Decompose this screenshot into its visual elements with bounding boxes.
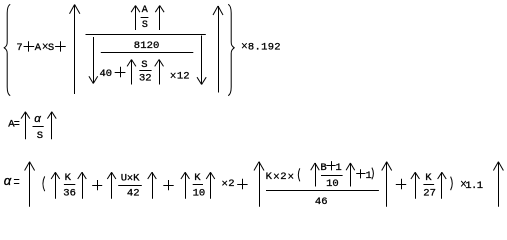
svg-text:10: 10 [193,188,206,200]
big plus 5 [163,185,173,187]
svg-text:12: 12 [177,70,190,82]
svg-text:S: S [141,59,147,71]
svg-text:1: 1 [366,170,372,182]
UxK/42 bar [118,185,142,187]
svg-text:2: 2 [228,178,234,190]
big plus 1 [24,46,35,48]
text x1.1 [461,181,466,187]
K/27 bar [423,184,434,186]
svg-text:K: K [425,172,432,184]
svg-text:46: 46 [315,196,328,208]
svg-text:32: 32 [139,72,152,84]
big plus 3 [115,72,126,74]
svg-text:A: A [35,42,42,54]
line3 big fraction right tall arrow [386,162,388,207]
line3 big fraction left tall arrow [259,162,261,207]
svg-text:S: S [48,42,54,54]
inner open paren [298,168,299,181]
K/36 right arrow [82,172,84,199]
svg-text:1: 1 [335,162,341,174]
K/10 right arrow [210,172,212,199]
svg-text:B: B [320,162,326,174]
up arrow S/32 right [159,60,161,85]
line3 tall arrow end [498,162,500,207]
inner close paren [372,168,374,180]
alpha over S bar [33,126,44,128]
plus 8 [356,173,365,175]
svg-text:8120: 8120 [134,40,160,52]
main fraction bar top formula [86,34,206,36]
K/27 left arrow [415,172,417,199]
svg-text:K: K [194,172,201,184]
right curly brace } [228,4,234,95]
svg-text:40: 40 [100,68,113,80]
K/27 right arrow [441,172,443,199]
K/10 left arrow [185,172,187,199]
svg-text:K: K [133,172,140,184]
tall up arrow right [218,6,220,93]
K/36 left arrow [55,172,57,199]
svg-text:10: 10 [326,178,339,190]
svg-text:27: 27 [423,188,436,200]
text x8.192 [242,43,247,48]
svg-text:α: α [4,173,12,188]
text x12 [171,73,176,78]
svg-text:S: S [142,20,148,31]
B+1/10 right arrow [350,163,352,187]
mini fraction S/32 bar [139,70,151,72]
big plus 6 [237,184,247,186]
small up arrow A/S left [135,6,137,31]
big plus 2 [55,46,66,48]
svg-text:α: α [34,113,41,125]
tall up arrow left [74,5,76,95]
B+1 plus 7 [326,165,335,167]
svg-text:A: A [142,5,148,16]
UxK/42 right arrow [152,172,154,199]
big fraction bar line3 [266,190,379,192]
line2 up arrow right [51,112,53,139]
down arrow right [201,36,203,85]
up arrow S/32 left [131,60,133,85]
big close paren [451,177,453,191]
big open paren [43,176,45,191]
svg-text:42: 42 [127,188,140,200]
small up arrow A/S right [159,6,161,31]
down arrow left [93,37,95,84]
second fraction bar [101,52,194,54]
svg-text:U: U [121,172,127,184]
svg-text:7: 7 [16,42,22,54]
B+1/10 left arrow [315,163,317,187]
svg-text:8.192: 8.192 [248,41,281,53]
svg-text:S: S [37,130,43,142]
K/36 bar [64,184,75,186]
mini fraction A/S bar [141,17,149,19]
svg-text:1.1: 1.1 [465,180,483,192]
svg-text:2: 2 [280,171,286,183]
times sign [43,44,48,49]
text x2 [222,181,227,186]
line2 up arrow left [25,112,27,139]
left curly brace { [4,4,10,95]
big plus 9 [396,184,406,186]
big plus 4 [92,185,102,187]
svg-text:K: K [65,172,72,184]
UxK/42 left arrow [111,172,113,199]
K/10 bar [193,184,203,186]
line3 tall arrow 1 [29,162,31,207]
svg-text:36: 36 [63,188,76,200]
B+1/10 bar [321,175,343,177]
svg-text:K: K [266,171,273,183]
